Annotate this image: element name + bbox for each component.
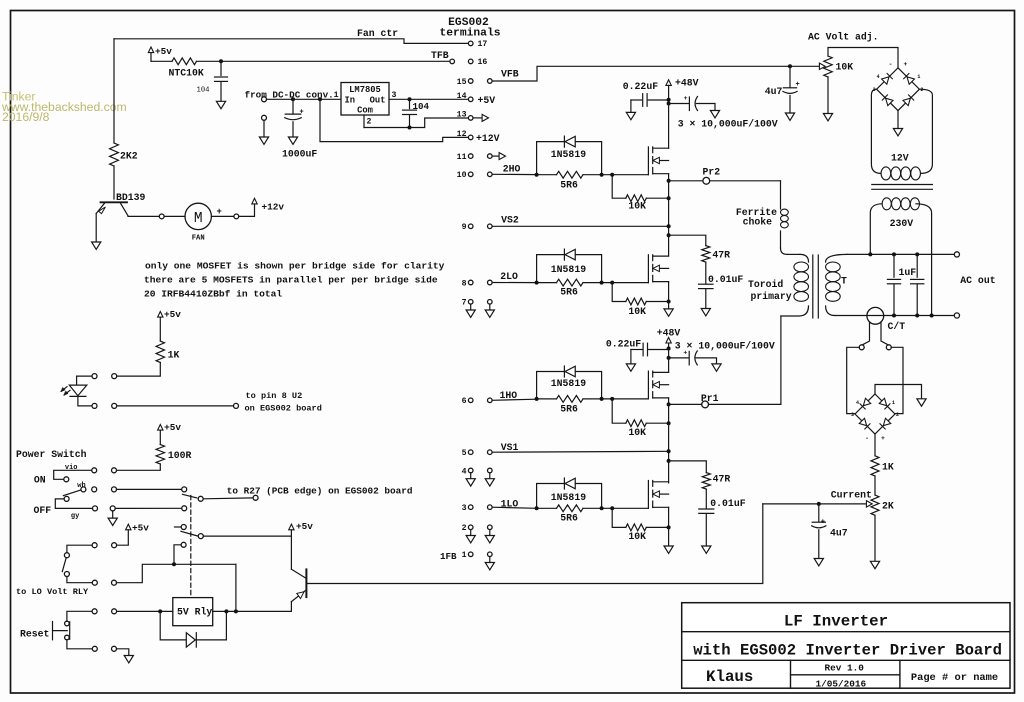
svg-text:BD139: BD139	[116, 192, 146, 203]
node 1000uF junction	[291, 97, 295, 101]
wire BR1 AC left	[871, 89, 881, 173]
terminal r2 a2	[92, 543, 97, 548]
label 1HO	[500, 390, 518, 401]
wire choke to toroid top	[787, 253, 800, 255]
watermark Tinker www.thebackshed.com 2016/9/8	[1, 90, 127, 125]
wire reset row	[117, 610, 173, 612]
wire r2 bracket	[67, 545, 92, 553]
wire BR2 plus down	[874, 434, 876, 456]
node relay2 junction	[234, 609, 238, 613]
power +5v Q5	[289, 521, 314, 569]
wire loVolt low	[67, 577, 92, 583]
label VS1	[501, 442, 519, 453]
wire LED cathode	[78, 396, 92, 406]
terminal LED b2	[112, 403, 117, 408]
svg-text:FAN: FAN	[192, 235, 205, 243]
label 1uF	[899, 267, 917, 278]
svg-text:+5v: +5v	[132, 523, 149, 534]
svg-text:3: 3	[392, 91, 397, 100]
svg-text:3 × 10,000uF/100V: 3 × 10,000uF/100V	[675, 340, 775, 351]
svg-text:there are 5 MOSFETS in paralle: there are 5 MOSFETS in parallel per per …	[144, 274, 438, 285]
power +5v relay2	[117, 523, 150, 546]
label 12V	[891, 152, 909, 163]
node 4u7 junction	[817, 502, 821, 506]
svg-text:gy: gy	[71, 513, 80, 521]
terminal C/T right	[886, 345, 891, 350]
inductor ferrite choke	[781, 181, 789, 255]
wire relay right	[213, 610, 292, 612]
svg-text:2HO: 2HO	[503, 164, 521, 175]
svg-text:1K: 1K	[882, 461, 894, 472]
svg-text:9: 9	[462, 223, 467, 232]
wire Fan ctr	[114, 39, 468, 44]
wire TFB	[197, 59, 455, 64]
label OFF	[34, 505, 52, 516]
svg-text:1FB: 1FB	[440, 551, 457, 562]
relay1 lever	[183, 494, 197, 498]
svg-text:+: +	[684, 95, 688, 102]
terminal sw b2	[112, 487, 117, 492]
wire collector to fan	[128, 214, 164, 219]
label Reset	[20, 629, 49, 640]
svg-text:5: 5	[462, 449, 467, 458]
svg-text:+12V: +12V	[476, 133, 500, 144]
wire Q5 base	[305, 583, 307, 585]
terminal r2 a1	[112, 543, 117, 548]
label VFB	[501, 68, 519, 79]
svg-text:10K: 10K	[628, 427, 646, 438]
wire +12V net	[320, 99, 468, 141]
svg-text:15: 15	[457, 78, 467, 87]
svg-text:20 IRFB4410ZBbf in total: 20 IRFB4410ZBbf in total	[144, 289, 282, 300]
svg-text:In: In	[345, 96, 356, 106]
svg-text:NTC10K: NTC10K	[169, 68, 204, 79]
wire reset low	[67, 640, 92, 649]
svg-text:47R: 47R	[713, 473, 731, 484]
svg-text:Toroid: Toroid	[748, 279, 783, 290]
wire BR2 AC left	[847, 347, 860, 413]
svg-text:Com: Com	[357, 106, 373, 116]
terminal DC-DC -	[262, 115, 267, 137]
svg-text:only one MOSFET is shown per b: only one MOSFET is shown per bridge side…	[145, 260, 445, 271]
svg-text:LM7805: LM7805	[349, 85, 381, 95]
toroid core	[813, 255, 819, 318]
wire to R27	[203, 497, 253, 500]
power +5v 100R	[158, 422, 182, 445]
wire BR1 minus to ground	[897, 111, 899, 129]
terminal sw pole	[81, 487, 86, 492]
resistor 47R bottom	[702, 473, 730, 490]
svg-text:8: 8	[462, 279, 467, 288]
ground 2K pot	[870, 561, 879, 568]
svg-text:+12v: +12v	[262, 202, 285, 213]
svg-text:1: 1	[462, 551, 467, 560]
svg-text:6: 6	[462, 397, 467, 406]
svg-text:Out: Out	[370, 96, 386, 106]
terminal C/T left	[859, 345, 864, 350]
switch lever ON-OFF	[63, 490, 81, 496]
wire Pr1 to toroid	[780, 316, 782, 404]
MOSFET cell 2LO (1N5819, 5R6, 10K, Q2)	[535, 249, 671, 317]
ground 3x10000uF top	[710, 111, 719, 118]
svg-text:Page # or name: Page # or name	[911, 672, 998, 684]
wire 100R to plug	[117, 464, 161, 470]
wire loVolt to relay	[117, 564, 236, 582]
svg-text:+5v: +5v	[155, 46, 172, 57]
ground 10K pot	[823, 114, 832, 121]
resistor 47R top	[702, 246, 730, 263]
node junction cap1 bottom	[892, 314, 896, 318]
EGS002 terminal pin circles 1-17	[468, 41, 492, 557]
svg-text:2LO: 2LO	[500, 271, 518, 282]
ground BR2 top	[917, 399, 926, 406]
svg-text:2K: 2K	[882, 501, 894, 512]
terminal reset a2	[112, 609, 117, 614]
terminal ON	[64, 477, 69, 482]
svg-text:terminals: terminals	[439, 27, 500, 39]
svg-text:1000uF: 1000uF	[282, 148, 317, 159]
svg-text:+: +	[904, 61, 908, 68]
ground BD139 emitter	[92, 242, 101, 249]
svg-text:OFF: OFF	[34, 505, 52, 516]
LED D1	[61, 385, 87, 396]
title LF Inverter	[784, 613, 888, 631]
node VFB-4u7 junction	[788, 64, 792, 68]
terminal relay2 up stub	[175, 525, 187, 530]
wire ON contact	[54, 470, 92, 479]
label Current	[831, 489, 872, 500]
terminal relay1 up	[182, 487, 187, 492]
label Fan ctr	[357, 28, 398, 39]
node VS2 junction	[667, 224, 671, 228]
terminal LED a1	[112, 374, 117, 379]
label 0.22uF bottom	[606, 338, 641, 349]
svg-text:-: -	[889, 61, 893, 68]
wire relay2 pole to 5v	[203, 535, 291, 537]
svg-text:VS2: VS2	[501, 215, 519, 226]
wire current wiper	[763, 503, 819, 505]
node com-cap junction	[408, 126, 412, 130]
svg-text:LF Inverter: LF Inverter	[784, 613, 888, 631]
wire 1K to plug	[117, 363, 161, 377]
svg-text:3: 3	[462, 504, 467, 513]
svg-text:Klaus: Klaus	[706, 668, 753, 686]
svg-text:5R6: 5R6	[560, 403, 578, 414]
svg-text:choke: choke	[743, 216, 773, 227]
svg-text:Reset: Reset	[20, 629, 49, 640]
ground 1000uF	[288, 137, 297, 144]
ground 0.01uF bottom	[702, 546, 711, 553]
wire sw c2 ground	[112, 511, 114, 518]
wire 2HO	[492, 173, 536, 175]
label Ferrite choke	[736, 207, 777, 227]
title Page # or name	[911, 672, 998, 684]
node snubber1HO junction	[667, 459, 671, 463]
label 0.01uF bottom	[710, 498, 745, 509]
svg-text:VFB: VFB	[501, 68, 519, 79]
transistor Q5	[291, 569, 306, 601]
wire base feedback	[306, 504, 762, 584]
svg-text:+5v: +5v	[164, 309, 181, 320]
svg-text:+5V: +5V	[478, 95, 496, 106]
node relay2 T junction	[172, 562, 176, 566]
power +12v fan	[252, 198, 285, 212]
pin11 output arrow	[492, 153, 505, 160]
wire C/T lead right	[881, 322, 888, 345]
wire AC out bottom	[835, 315, 954, 317]
svg-text:2: 2	[920, 87, 923, 93]
svg-text:to pin 8 U2: to pin 8 U2	[246, 391, 303, 401]
toroid secondary winding	[826, 254, 847, 315]
label wh	[77, 482, 85, 490]
svg-text:1N5819: 1N5819	[551, 149, 586, 160]
ground 3x10000uF bottom	[712, 364, 721, 371]
terminal pin8U2	[234, 403, 239, 408]
svg-text:1: 1	[334, 91, 339, 100]
svg-text:5R6: 5R6	[560, 179, 578, 190]
svg-text:Current: Current	[831, 489, 872, 500]
svg-text:-: -	[865, 435, 869, 442]
relay box 5V Rly	[173, 598, 213, 626]
wire fan to +12v	[239, 204, 255, 216]
capacitor 0.01uF top	[699, 262, 713, 308]
terminal sw b1	[92, 487, 97, 492]
label to LO Volt RLY	[16, 587, 89, 597]
wire Q5 collector	[290, 602, 292, 612]
terminal reset b2	[112, 646, 117, 651]
node 48V junctions bottom	[667, 347, 671, 360]
terminal AC out bottom	[954, 313, 959, 318]
svg-text:0.01uF: 0.01uF	[710, 498, 745, 509]
svg-text:1N5819: 1N5819	[551, 492, 586, 503]
svg-text:10K: 10K	[836, 61, 854, 72]
svg-text:5R6: 5R6	[560, 287, 578, 298]
svg-text:to LO Volt RLY: to LO Volt RLY	[16, 587, 89, 597]
svg-text:11: 11	[457, 153, 467, 162]
wire rail Q4 source down	[668, 507, 670, 546]
node VS1 junction	[667, 449, 671, 453]
transistor BD139	[96, 192, 145, 216]
title block box	[682, 603, 1010, 689]
wire LM7805 out to pin14	[389, 98, 468, 100]
wire 2K2 to base	[113, 166, 115, 199]
potentiometer 2K	[821, 495, 894, 515]
node junction 230V-bottom	[930, 314, 934, 318]
terminal sw a1	[112, 468, 117, 473]
loVolt lever	[62, 558, 66, 572]
svg-text:+5v: +5v	[296, 521, 313, 532]
MOSFET cell 2HO (1N5819, 5R6, 10K, Q1)	[535, 136, 671, 212]
svg-text:on EGS002 board: on EGS002 board	[245, 404, 322, 414]
capacitor 104 (NTC)	[197, 61, 228, 101]
svg-text:5V Rly: 5V Rly	[177, 607, 212, 618]
label 2HO	[503, 164, 521, 175]
ground 4u7 VFB	[785, 113, 794, 120]
ground 2LO source	[664, 309, 673, 316]
wire rail to Q1 drain	[668, 104, 670, 149]
probe Pr2	[669, 177, 781, 184]
svg-text:3: 3	[851, 412, 854, 418]
label Pr2	[703, 167, 721, 178]
bridge rectifier BR2	[851, 394, 899, 442]
diode D2 (relay)	[160, 611, 226, 647]
capacitor 0.22uF top	[631, 94, 669, 113]
label gy	[71, 513, 80, 521]
svg-text:10K: 10K	[628, 201, 646, 212]
MOSFET cell 1HO (1N5819, 5R6, 10K, Q3)	[535, 366, 671, 438]
wire LED to pin8U2	[117, 405, 234, 407]
title Klaus	[706, 668, 753, 686]
svg-text:100R: 100R	[168, 450, 192, 461]
svg-text:230V: 230V	[890, 218, 914, 229]
terminal LED b1	[92, 403, 97, 408]
capacitor 1uF a	[887, 254, 900, 315]
capacitor 104 (5V)	[403, 99, 430, 127]
ground 0.22uF top	[626, 112, 635, 119]
snubber wire top	[669, 235, 706, 245]
wire rail to Q3 drain	[668, 348, 670, 372]
svg-text:2: 2	[896, 412, 899, 418]
wire rail Q2 source down	[668, 282, 670, 309]
power +5v NTC	[148, 46, 172, 61]
svg-text:+: +	[300, 108, 304, 116]
node +12V junction	[318, 97, 322, 101]
svg-text:Rev 1.0: Rev 1.0	[825, 663, 865, 674]
node junction cap1 top	[892, 252, 896, 256]
title date 1/05/2016	[815, 678, 866, 689]
svg-text:10K: 10K	[628, 531, 646, 542]
svg-text:+48V: +48V	[675, 77, 699, 88]
label to pin 8 U2	[245, 391, 322, 413]
resistor 1K (bridge)	[871, 456, 894, 476]
label Pr1	[701, 393, 719, 404]
label 230V	[890, 218, 914, 229]
label TFB	[431, 50, 449, 61]
svg-text:16: 16	[478, 58, 488, 67]
potentiometer 10K	[788, 56, 853, 77]
wire 2K to ground	[874, 515, 876, 561]
svg-text:to R27 (PCB edge) on EGS002 b: to R27 (PCB edge) on EGS002 board	[227, 485, 413, 496]
capacitor 3x10000uF bottom	[669, 350, 717, 365]
svg-text:2: 2	[462, 524, 467, 533]
wire 1K to 2K	[874, 476, 876, 495]
title Rev 1.0	[825, 663, 865, 674]
label to R27	[227, 485, 413, 496]
svg-text:M: M	[194, 211, 203, 227]
svg-text:TFB: TFB	[431, 50, 449, 61]
svg-text:AC Volt adj.: AC Volt adj.	[808, 31, 879, 42]
svg-text:1: 1	[917, 74, 920, 80]
label 0.22uF top	[623, 81, 658, 92]
label +12V pin12	[476, 133, 500, 144]
terminal OFF	[64, 496, 69, 501]
terminal sw c2	[110, 506, 115, 511]
wire BR2 AC right	[891, 347, 903, 413]
node diode junction left	[158, 609, 162, 613]
svg-text:4: 4	[877, 74, 880, 80]
ground 0.01uF top	[701, 309, 710, 316]
ground reset	[124, 656, 133, 663]
wire +5v to NTC	[151, 60, 172, 62]
svg-text:+5v: +5v	[164, 422, 181, 433]
ground 4u7 current	[814, 559, 823, 566]
label Toroid primary	[748, 279, 792, 302]
node snubber2HO junction	[667, 233, 671, 237]
terminal relay2 low	[174, 542, 186, 564]
svg-text:47R: 47R	[712, 250, 730, 261]
label VS2	[501, 215, 519, 226]
terminal loVolt up	[64, 553, 69, 558]
wire 1HO	[492, 399, 536, 400]
wire pot top	[828, 48, 898, 68]
label T	[841, 275, 847, 286]
label 1LO	[501, 499, 519, 510]
capacitor 4u7 (VFB)	[765, 66, 800, 113]
fan + terminal	[234, 214, 239, 219]
wire DC-DC to LM7805	[267, 98, 342, 100]
wire pot to ground	[827, 77, 829, 114]
wire 230V right lead	[916, 204, 932, 316]
label Power Switch	[16, 449, 87, 460]
node 104 junction	[408, 97, 412, 101]
snubber wire bottom	[669, 461, 707, 473]
node TFB junction	[219, 59, 223, 63]
terminal loVolt low	[64, 572, 69, 577]
pin number labels	[440, 40, 487, 562]
ground DC-DC -	[259, 137, 268, 144]
svg-text:ON: ON	[34, 475, 46, 486]
terminal sw a2	[92, 468, 97, 473]
svg-text:2K2: 2K2	[120, 151, 138, 162]
capacitor 0.22uF bottom	[631, 343, 669, 364]
fan motor M	[164, 203, 234, 242]
wire OFF contact	[55, 499, 92, 509]
svg-text:0.22uF: 0.22uF	[623, 81, 658, 92]
label 3x10000uF bottom	[675, 340, 775, 351]
svg-text:+: +	[217, 207, 222, 217]
wire rail Q1 source down	[668, 174, 670, 256]
svg-text:VS1: VS1	[501, 442, 519, 453]
svg-text:Power Switch: Power Switch	[16, 449, 87, 460]
node diode junction right	[224, 609, 228, 613]
label AC Volt adj.	[808, 31, 879, 42]
MOSFET cell 1LO (1N5819, 5R6, 10K, Q4)	[535, 478, 671, 542]
label from DC-DC conv.	[245, 89, 334, 100]
svg-text:1N5819: 1N5819	[551, 264, 586, 275]
ground sw c2	[108, 518, 117, 525]
terminal loVolt b1	[92, 580, 97, 585]
svg-text:+: +	[881, 435, 885, 442]
transformer T1 12V winding	[881, 167, 920, 180]
svg-text:7: 7	[462, 299, 467, 308]
wire reset up	[67, 611, 92, 621]
svg-text:104: 104	[197, 87, 210, 95]
relay2 lever	[181, 531, 198, 536]
power +48V top	[666, 77, 699, 99]
ground 1LO source	[664, 546, 673, 553]
wire relay2 vertical	[235, 564, 237, 611]
terminal sw c1	[93, 506, 98, 511]
wire AC out top	[847, 253, 954, 255]
pushbutton Reset	[53, 621, 70, 640]
svg-text:3 × 10,000uF/100V: 3 × 10,000uF/100V	[678, 119, 778, 130]
wire 230V left lead	[870, 204, 882, 255]
label 3x10000uF top	[678, 119, 778, 130]
svg-text:5R6: 5R6	[560, 513, 578, 524]
power +5v LED	[158, 309, 182, 341]
terminal R27	[253, 495, 258, 500]
terminal relay1 low	[182, 506, 187, 511]
